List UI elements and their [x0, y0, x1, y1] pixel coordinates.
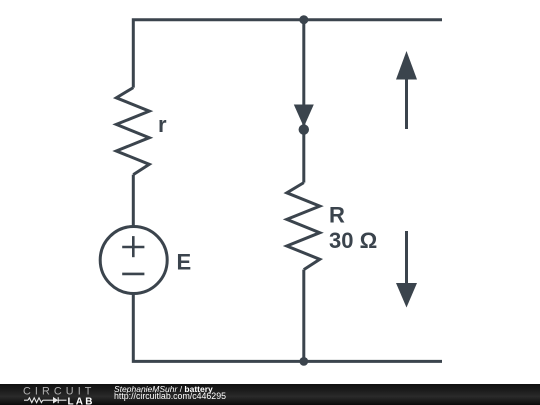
svg-text:E: E: [177, 250, 192, 275]
svg-text:R: R: [329, 202, 345, 227]
svg-text:LAB: LAB: [68, 396, 95, 405]
svg-text:30 Ω: 30 Ω: [329, 228, 377, 253]
svg-text:r: r: [158, 112, 167, 137]
